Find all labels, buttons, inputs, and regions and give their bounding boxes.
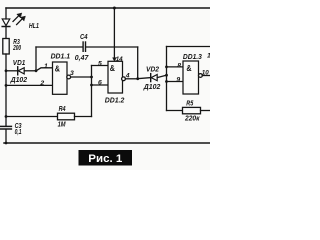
wire riser junction up to C4 line bbox=[35, 47, 37, 71]
DD1.3 output inversion circle bbox=[199, 74, 203, 78]
wire DD1.2 input tie vertical bbox=[91, 66, 93, 117]
DD1.2 output inversion circle bbox=[122, 77, 126, 81]
wire junction to VD2 bbox=[138, 78, 151, 79]
wire left column rail to LED bbox=[5, 8, 7, 19]
node dot VD1 tap bbox=[5, 69, 8, 72]
svg-text:DD1.2: DD1.2 bbox=[105, 98, 125, 105]
node dot VD2 junction bbox=[165, 74, 168, 77]
svg-text:1: 1 bbox=[44, 63, 48, 70]
svg-text:0,1: 0,1 bbox=[15, 129, 22, 136]
svg-text:Рис. 1: Рис. 1 bbox=[88, 153, 122, 165]
svg-text:8: 8 bbox=[177, 62, 181, 69]
wire DD1.1 pin3 output bbox=[71, 76, 92, 78]
svg-text:R4: R4 bbox=[59, 106, 66, 113]
node dot pin9 junction bbox=[165, 80, 168, 83]
svg-text:HL1: HL1 bbox=[29, 23, 39, 30]
wire bottom rail bbox=[4, 142, 210, 144]
svg-text:1M: 1M bbox=[58, 121, 66, 128]
wire C4 right bbox=[86, 46, 138, 48]
svg-text:&: & bbox=[110, 64, 115, 73]
diode VD2 cathode bar bbox=[150, 74, 152, 82]
LED HL1 emission arrows bbox=[13, 13, 25, 25]
node dot pin2 tap bbox=[5, 84, 8, 87]
wire DD1.1 pin2 bbox=[6, 84, 53, 86]
IC gate DD1.2 box bbox=[108, 61, 123, 93]
svg-text:5: 5 bbox=[98, 61, 102, 68]
node dot C4 riser junction bbox=[136, 77, 139, 80]
diode VD1 cathode bar bbox=[17, 67, 19, 75]
pin14 arrowhead bbox=[113, 58, 117, 62]
wire DD1.3 pin8 bbox=[167, 66, 184, 68]
node dot pin8 junction bbox=[165, 66, 168, 69]
svg-text:&: & bbox=[186, 64, 191, 73]
IC gate DD1.3 box bbox=[183, 61, 199, 94]
svg-text:Д102: Д102 bbox=[10, 77, 28, 84]
resistor R4 body bbox=[58, 113, 75, 120]
svg-text:VD2: VD2 bbox=[146, 66, 159, 73]
wire VD1 anode to junction bbox=[24, 70, 36, 72]
svg-text:14: 14 bbox=[116, 56, 123, 63]
resistor R5 body bbox=[183, 107, 201, 113]
svg-text:10: 10 bbox=[202, 70, 209, 77]
svg-text:R5: R5 bbox=[186, 101, 193, 108]
svg-text:Д102: Д102 bbox=[143, 84, 161, 91]
IC gate DD1.1 box bbox=[53, 62, 68, 94]
capacitor C4 plates bbox=[82, 42, 84, 51]
node dot VD1/C4 riser junction bbox=[35, 69, 38, 72]
wire DD1.3 pin9 bbox=[167, 81, 184, 83]
svg-text:6: 6 bbox=[98, 79, 102, 86]
DD1.1 output inversion circle bbox=[67, 75, 71, 79]
wire C3 to bottom rail bbox=[5, 129, 7, 143]
wire riser C4 to DD1.2 output bbox=[137, 47, 139, 79]
wire R4 left bbox=[6, 116, 58, 118]
svg-text:DD1.3: DD1.3 bbox=[183, 54, 202, 61]
wire DD1.3 input node to right edge bbox=[167, 46, 211, 48]
wire VD1 cathode side bbox=[6, 70, 18, 72]
svg-text:2: 2 bbox=[39, 80, 44, 87]
svg-text:200: 200 bbox=[12, 45, 21, 52]
svg-text:220к: 220к bbox=[184, 116, 200, 123]
wire R3 down left column to C3 bbox=[5, 54, 7, 126]
wire LED to R3 bbox=[5, 27, 7, 39]
node dot pin6 junction bbox=[90, 84, 93, 87]
LED HL1 triangle bbox=[2, 19, 10, 26]
wire VD2 anode to DD1.3 inputs bbox=[157, 75, 166, 77]
svg-text:DD1.1: DD1.1 bbox=[51, 53, 71, 60]
wire R5 right bbox=[201, 110, 211, 112]
wire DD1.2 pin14 from top rail bbox=[113, 8, 115, 60]
svg-text:VD1: VD1 bbox=[13, 60, 26, 67]
wire top supply rail bbox=[6, 7, 210, 9]
wire junction to DD1.1 pin1 bbox=[36, 68, 53, 71]
wire R5 left riser bbox=[167, 110, 183, 112]
wire DD1.3 pin10 output bbox=[202, 75, 210, 77]
svg-text:C4: C4 bbox=[80, 34, 88, 41]
svg-text:3: 3 bbox=[70, 70, 74, 77]
svg-text:1: 1 bbox=[207, 53, 210, 60]
diode VD1 triangle bbox=[18, 68, 24, 74]
LED HL1 cathode bar bbox=[2, 26, 10, 28]
caption box Рис. 1 bbox=[79, 150, 133, 166]
node dot R4 tap bbox=[5, 115, 8, 118]
svg-text:&: & bbox=[55, 64, 60, 73]
resistor R3 body bbox=[3, 39, 9, 55]
capacitor C3 plates bbox=[1, 125, 12, 127]
node junction dot on top rail (pin14 riser) bbox=[113, 7, 116, 10]
svg-text:4: 4 bbox=[125, 72, 130, 79]
wire R4 right to tie vertical bbox=[75, 116, 92, 118]
node dot output to DD1.2 input tie bbox=[90, 76, 93, 79]
node dot bottom rail bbox=[5, 142, 8, 145]
svg-text:9: 9 bbox=[176, 76, 180, 83]
wire C4 left bbox=[36, 46, 83, 48]
wire DD1.2 pin4 output bbox=[125, 78, 137, 80]
wire DD1.2 pin6 bbox=[92, 84, 109, 86]
wire DD1.3 input tie vertical bbox=[166, 47, 168, 111]
wire DD1.2 pin5 bbox=[92, 65, 109, 67]
diode VD2 triangle bbox=[151, 75, 157, 81]
svg-text:0,47: 0,47 bbox=[75, 55, 90, 62]
